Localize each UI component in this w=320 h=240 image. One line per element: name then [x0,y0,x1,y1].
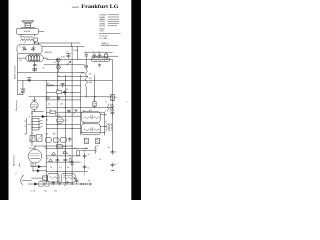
resistor R3 [56,91,61,93]
trimmer C11 [20,89,26,94]
IF can Fi2 [82,124,101,135]
wire switch bus [32,110,47,146]
oscillator coil L2 [85,68,87,97]
node E [38,42,39,43]
padder C19 [45,182,49,187]
svg-text:Wellenschalter: Wellenschalter [13,65,16,79]
detector box with diodes D1 D2 [17,45,42,54]
node U [34,145,35,146]
svg-text:2n: 2n [114,164,116,166]
svg-text:osz: osz [76,181,79,183]
svg-text:0,1: 0,1 [54,62,57,64]
svg-text:Fi2: Fi2 [83,122,86,124]
svg-text:WR 1z: WR 1z [102,42,110,45]
tube V4 ECH81 [28,146,42,172]
output jack J1 [85,183,87,185]
resistor R7 [57,145,66,148]
choke Dr1 (stadium with 4 windings) [18,55,47,62]
wire anode bus [42,46,84,48]
svg-text:2k: 2k [46,119,48,121]
IF transformer T1 [107,104,114,112]
node H [57,85,58,86]
svg-text:1M: 1M [74,148,77,150]
node L [80,112,81,113]
wire bus6 [46,115,80,117]
capacitor C28 [67,109,70,113]
svg-text:448: 448 [89,82,92,84]
svg-text:3p: 3p [47,158,49,160]
capacitor C3 [66,54,71,59]
node V [72,145,73,146]
capacitor C22 [83,154,86,159]
trimmer C33 [29,135,35,142]
svg-text:1n: 1n [58,76,60,78]
svg-text:460: 460 [89,110,92,112]
node N [72,128,73,129]
svg-text:0,5: 0,5 [64,120,67,122]
node I [72,92,73,93]
tube table [99,15,121,46]
IF transformer T2 [106,123,113,131]
svg-text:Frankfurt LG: Frankfurt LG [81,4,119,10]
electrolytic C14 [84,138,88,143]
electrolytic C31 [74,178,79,184]
svg-text:170: 170 [89,78,92,80]
svg-text:12k: 12k [54,191,57,193]
node C [80,183,81,184]
wire bottom bus [28,183,85,185]
wire bus10 [46,155,80,157]
wire mixer vertical [94,75,96,108]
electrolytic C7 [111,94,114,100]
node R [86,96,87,97]
svg-text:1k: 1k [49,110,51,112]
capacitor C24 [111,150,114,154]
wire screen vertical [77,47,79,60]
diode D4 [49,159,53,162]
svg-text:50: 50 [66,89,68,91]
node W [31,113,32,114]
node Q [57,171,58,172]
output transformer Tr2 [16,28,44,34]
wire heater return [57,75,88,77]
title [72,4,120,10]
capacitor C17 [64,158,67,163]
node J [46,99,47,100]
wire v2 top [29,96,81,98]
wire AVC bus [18,80,113,94]
svg-text:25n: 25n [60,104,63,106]
resistor R15 [77,151,80,156]
svg-text:5k: 5k [97,145,99,147]
wire osc left [80,75,82,135]
svg-text:Fi1: Fi1 [83,110,86,112]
svg-text:abst.: abst. [18,162,21,167]
wire grid bus2 [46,85,80,87]
IF can Fi1 [82,112,101,122]
band switch S1 [24,118,42,134]
node D [34,42,35,43]
capacitor C32 [98,64,101,68]
capacitor C6 [104,53,107,58]
svg-text:6...18: 6...18 [30,191,35,193]
diode D9 [52,152,56,155]
resistor R12 [46,138,52,143]
node P [65,155,66,156]
svg-text:2n: 2n [114,151,116,153]
svg-text:5n: 5n [66,51,68,53]
pilot lamp La [56,58,60,62]
resistor R10 [71,160,73,165]
svg-text:I= 0,3A: I= 0,3A [100,37,108,40]
svg-text:48: 48 [108,147,110,149]
node Y [31,142,32,143]
wire heater bus [44,64,85,66]
wire left bus [18,54,23,95]
node X [31,132,32,133]
pilot lamp La2 [57,65,61,69]
resistor R13 [53,138,59,142]
svg-text:2p: 2p [24,134,26,136]
resistor R8 [69,158,71,164]
capacitor C1 (below choke) [33,62,37,73]
svg-text:5n: 5n [93,100,95,102]
node F [57,59,58,60]
svg-text:8k: 8k [63,152,65,154]
wire chassis bus [81,96,113,98]
capacitor C20 [52,181,55,185]
wire v4 top [35,145,72,147]
wire mid verticals [46,47,72,184]
wire bus9 [46,147,87,149]
svg-text:Lorenz: Lorenz [72,6,80,9]
diode D5 [31,165,46,168]
capacitor C10 [63,90,66,94]
output arrow [83,183,91,185]
socket pin P2 [47,96,50,99]
electrolytic C15 [96,138,100,143]
loudspeaker LS [21,21,35,28]
svg-text:EC92: EC92 [55,115,60,117]
svg-text:42: 42 [24,42,26,44]
chassis dashed line [84,150,86,176]
resistor R14 [61,138,67,143]
capacitor C9 [61,84,64,88]
svg-text:465: 465 [85,148,88,150]
oscillator coil box L5 [61,174,75,183]
wire can junction [81,112,107,135]
capacitor C4 [93,53,96,57]
wire bus11 [46,162,87,171]
svg-text:250V: 250V [73,50,78,52]
tube V2 triode [30,97,38,112]
capacitor C5 [98,53,101,57]
svg-text:5k: 5k [47,83,49,85]
wire het line [81,149,96,151]
wire screen bus [47,59,112,61]
ferrite antenna arc [21,175,24,185]
resistor R6 [50,111,56,113]
AM osc resistor R9 [95,146,97,154]
aerial jack X1 [85,65,88,68]
capacitor C27 [57,97,60,100]
tube V3 triode [57,117,64,124]
potentiometer P2 [73,110,77,114]
wire right bus [111,60,113,152]
svg-text:3n: 3n [88,180,90,182]
svg-text:EABC80: EABC80 [45,51,52,54]
padder C18 [39,180,43,186]
diode D8 [42,115,44,118]
svg-text:2n: 2n [69,155,71,157]
wire aerial top [84,52,118,56]
electrolytic C25 [32,176,48,181]
diode D3 [63,148,67,156]
svg-text:10: 10 [92,52,94,54]
svg-text:ECH81: ECH81 [29,148,35,150]
svg-text:50: 50 [87,167,89,169]
wire bus8 [46,127,80,129]
wire cathode bus [18,71,85,73]
svg-text:6: 6 [105,111,106,113]
svg-text:520: 520 [44,191,47,193]
node A [94,96,95,97]
capacitor C26 [111,163,114,171]
capacitor C29 [68,137,71,141]
svg-text:25: 25 [73,110,75,112]
node T [112,107,113,108]
trimmer arrow [64,182,68,186]
svg-text:30: 30 [87,154,89,156]
capacitor C23 [83,165,86,170]
diode D6 [33,170,46,173]
svg-text:Ant: Ant [81,71,84,74]
diode D7 [35,183,38,185]
node M [57,124,58,125]
svg-text:0,1: 0,1 [57,89,60,91]
svg-text:30: 30 [67,167,69,169]
wire aerial vertical [85,57,87,65]
wire antenna link [23,180,32,182]
node O [46,148,47,149]
capacitor C12 [27,78,31,82]
capacitor C8 [93,102,96,107]
wire bus7 [28,124,80,126]
wire bus4 [46,99,80,101]
svg-text:Klangregler: Klangregler [15,100,18,111]
wire bus5 [46,111,104,113]
svg-text:50: 50 [19,60,21,62]
trimmer C34 [36,135,42,142]
svg-text:1n: 1n [99,159,101,161]
svg-text:1M: 1M [53,134,56,136]
svg-text:50: 50 [50,167,52,169]
potentiometer P1 arrow [67,61,71,65]
wire top bus [34,43,80,55]
svg-text:EC92: EC92 [100,26,106,28]
capacitor C30 [85,52,88,57]
node K [65,107,66,108]
svg-text:AM-Bereich: AM-Bereich [13,154,16,166]
oscillator coil box L4 [48,174,59,182]
svg-text:EM80: EM80 [32,100,37,102]
resistor R11 [34,38,38,41]
wire IF bus [46,107,112,109]
antenna coil L1 [91,58,109,62]
svg-text:4,8: 4,8 [89,73,92,75]
resistor R1 (field coil) [20,34,35,40]
wire lamp drop [57,62,59,73]
svg-text:0,1: 0,1 [48,104,51,106]
node S [104,132,105,133]
svg-text:25k: 25k [45,134,48,136]
capacitor C21 [58,181,61,185]
wire bus3 [46,91,80,93]
resistor R2 [47,84,54,86]
svg-text:10: 10 [98,52,100,54]
capacitor C16 [56,158,59,163]
capacitor C13 [111,113,114,117]
svg-text:0,1: 0,1 [59,167,62,169]
node B [72,183,73,184]
svg-text:L1: L1 [96,56,98,58]
node G [65,80,66,81]
